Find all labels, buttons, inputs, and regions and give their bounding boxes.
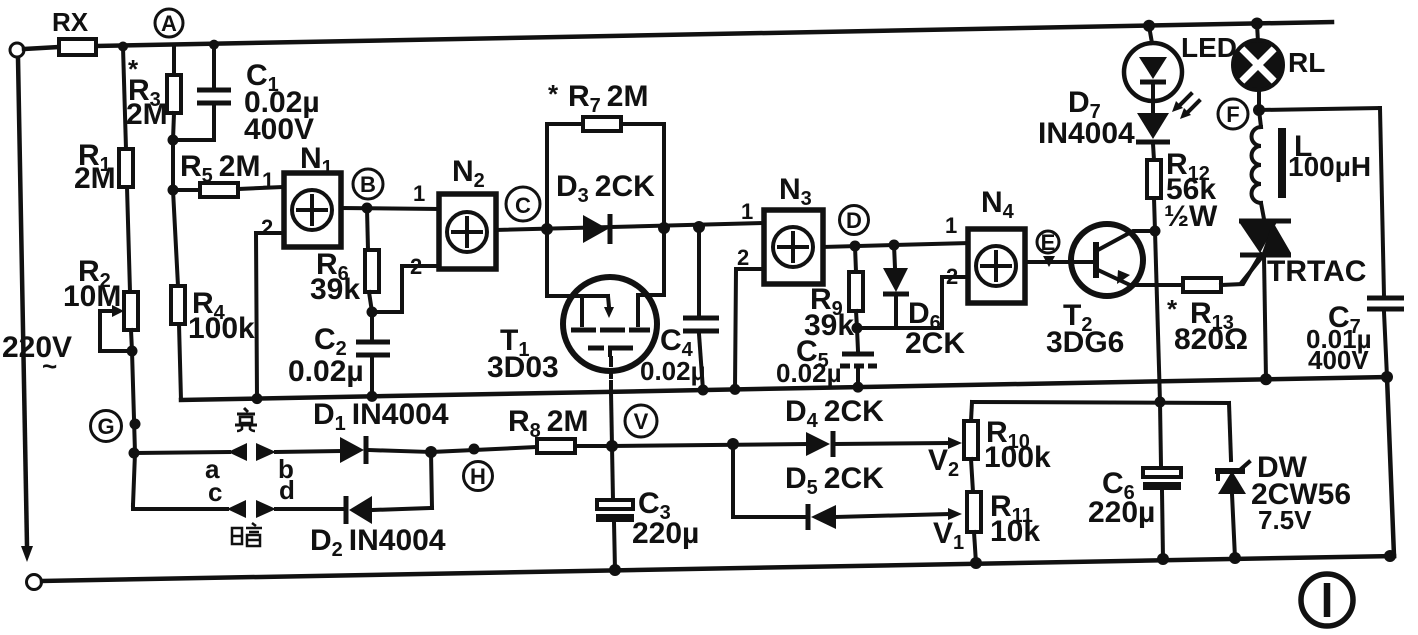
op-amp block N4 [942, 186, 1025, 328]
resistor RX [52, 7, 96, 55]
svg-text:R5 2M: R5 2M [180, 150, 260, 187]
svg-text:V2: V2 [928, 444, 959, 481]
diode D6 [857, 245, 965, 360]
lamp RL [1233, 24, 1325, 110]
resistor R8 [431, 405, 618, 455]
svg-text:V1: V1 [933, 517, 964, 554]
svg-text:IN4004: IN4004 [1038, 117, 1135, 150]
transistor T2 [1046, 224, 1155, 359]
resistor R2 potentiometer [63, 255, 138, 357]
diode D2 [310, 446, 446, 561]
svg-text:E: E [1041, 230, 1056, 255]
op-amp block N3 [735, 173, 823, 389]
capacitor C3 [596, 446, 699, 570]
svg-text:d: d [279, 475, 295, 505]
svg-text:N2: N2 [452, 155, 485, 192]
node H [464, 462, 493, 491]
svg-text:*: * [548, 79, 559, 109]
svg-text:1: 1 [945, 213, 957, 238]
op-amp block N1 [256, 142, 341, 398]
diode D7 [1038, 86, 1170, 160]
inductor L [1252, 110, 1372, 219]
wire N1 to N2 [341, 203, 439, 214]
svg-text:LED: LED [1181, 32, 1237, 63]
svg-text:3D03: 3D03 [487, 351, 559, 384]
wire N3 to N4 [823, 240, 968, 252]
svg-text:N3: N3 [779, 173, 812, 210]
svg-text:D3 2CK: D3 2CK [556, 170, 655, 207]
svg-text:39k: 39k [310, 273, 360, 306]
resistor R3 [126, 45, 181, 146]
svg-text:D2 IN4004: D2 IN4004 [310, 524, 446, 561]
svg-text:B: B [360, 172, 376, 197]
transistor T1 (MOSFET) [487, 228, 664, 446]
node D [840, 206, 869, 235]
resistor R12 [1147, 148, 1218, 402]
svg-text:220V: 220V [2, 331, 72, 364]
LED [1124, 26, 1237, 119]
svg-text:0.02µ: 0.02µ [288, 355, 364, 388]
svg-text:*: * [1167, 294, 1178, 324]
node I [1301, 574, 1353, 626]
wire bottom bus [42, 550, 1396, 581]
svg-text:400V: 400V [1308, 345, 1369, 375]
resistor R6 [310, 208, 379, 318]
svg-text:D: D [846, 208, 862, 233]
node C [506, 187, 540, 221]
resistor R1 [74, 47, 133, 292]
svg-text:0.02µ: 0.02µ [640, 356, 706, 386]
label dark [232, 523, 262, 546]
svg-text:D1 IN4004: D1 IN4004 [313, 398, 449, 435]
diode D1 [313, 398, 449, 464]
wire mid bus [181, 371, 1393, 404]
photocell arrows c d [133, 475, 344, 518]
resistor R9 [804, 246, 863, 342]
node B [353, 169, 383, 199]
wire N2 to N3 [496, 221, 764, 235]
svg-text:10k: 10k [990, 515, 1040, 548]
svg-text:1: 1 [262, 168, 274, 193]
capacitor C4 [640, 227, 719, 390]
node V [625, 405, 657, 437]
svg-text:1: 1 [413, 181, 425, 206]
svg-text:2M: 2M [74, 162, 116, 195]
svg-text:RL: RL [1288, 47, 1325, 78]
svg-text:820Ω: 820Ω [1174, 323, 1248, 356]
resistor R10 [964, 402, 1051, 492]
resistor R5 [173, 150, 284, 197]
svg-text:N1: N1 [300, 142, 333, 179]
svg-text:A: A [161, 11, 177, 36]
svg-text:H: H [470, 464, 486, 489]
wire left side 220V [2, 58, 72, 562]
wire N4 to T2 base [1025, 256, 1096, 267]
node E [1037, 230, 1059, 255]
svg-text:2: 2 [261, 215, 273, 240]
capacitor C1 [173, 45, 320, 146]
capacitor C2 [288, 312, 390, 396]
svg-text:TRTAC: TRTAC [1267, 255, 1366, 288]
resistor R4 [168, 140, 256, 400]
svg-text:V: V [634, 409, 649, 434]
svg-text:220µ: 220µ [1088, 496, 1155, 529]
label bright [235, 408, 257, 431]
svg-text:1: 1 [741, 199, 753, 224]
svg-text:0.02µ: 0.02µ [776, 358, 842, 388]
svg-text:R8 2M: R8 2M [508, 405, 588, 442]
svg-text:100k: 100k [984, 441, 1051, 474]
wire top [24, 18, 1332, 52]
terminal top-left [10, 43, 24, 57]
svg-text:D5 2CK: D5 2CK [785, 462, 884, 499]
capacitor C5 [776, 328, 877, 388]
diode D4 [612, 395, 962, 481]
node F [1218, 99, 1248, 129]
wire right edge [1387, 377, 1394, 556]
capacitor C6 [1088, 402, 1181, 559]
svg-text:N4: N4 [981, 186, 1015, 223]
svg-text:C: C [515, 193, 531, 218]
diode D3 [556, 170, 655, 244]
svg-text:100k: 100k [188, 312, 255, 345]
svg-text:220µ: 220µ [632, 517, 699, 550]
svg-text:10M: 10M [63, 280, 121, 313]
triac [1239, 221, 1366, 379]
resistor R11 [967, 490, 1040, 563]
wire G vertical [129, 351, 141, 505]
svg-text:½W: ½W [1164, 200, 1218, 233]
resistor R7 [547, 79, 664, 229]
diode D5 [733, 444, 964, 554]
capacitor C7 [1306, 108, 1404, 377]
svg-text:R7 2M: R7 2M [568, 80, 648, 117]
svg-text:G: G [97, 414, 114, 439]
svg-text:F: F [1226, 102, 1239, 127]
terminal bottom-left [27, 575, 42, 590]
resistor R13 [1143, 254, 1261, 356]
svg-text:D4 2CK: D4 2CK [785, 395, 884, 432]
svg-text:c: c [208, 477, 222, 507]
svg-text:100µH: 100µH [1288, 151, 1371, 182]
photocell arrows a b [135, 443, 340, 484]
svg-text:2: 2 [737, 245, 749, 270]
wire F junction [1253, 104, 1380, 116]
wire DC rail [972, 397, 1229, 408]
svg-text:~: ~ [42, 351, 57, 381]
svg-text:2CK: 2CK [905, 327, 965, 360]
svg-text:RX: RX [52, 7, 89, 37]
svg-text:2M: 2M [126, 98, 168, 131]
svg-text:7.5V: 7.5V [1258, 505, 1312, 535]
node A [155, 9, 183, 37]
zener DW [1215, 403, 1351, 558]
op-amp block N2 [372, 155, 496, 312]
svg-text:3DG6: 3DG6 [1046, 326, 1124, 359]
node G [91, 411, 122, 442]
